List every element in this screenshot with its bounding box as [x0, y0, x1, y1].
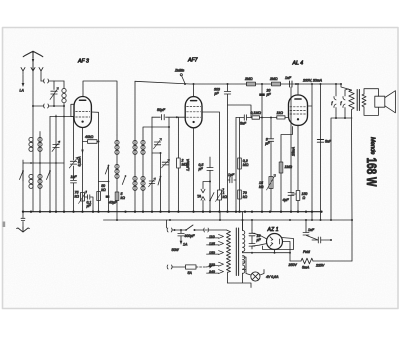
- svg-text:4µF: 4µF: [283, 198, 290, 202]
- svg-text:168 W: 168 W: [364, 158, 379, 187]
- ground bus nodes: [22, 211, 323, 213]
- wire column x320: [320, 84, 322, 220]
- power transformer HT secondary: [242, 220, 244, 231]
- wire dashed mains: [196, 266, 206, 268]
- svg-text:225V: 225V: [315, 264, 325, 268]
- svg-text:5mA: 5mA: [302, 266, 310, 270]
- resistor 5k: [115, 192, 119, 201]
- coil IF1a2: [115, 164, 119, 168]
- tube V1 internals: [80, 99, 86, 101]
- potentiometer det: [218, 190, 222, 200]
- svg-text:MΩ: MΩ: [182, 163, 188, 167]
- svg-text:1µF: 1µF: [228, 173, 235, 177]
- svg-text:50W: 50W: [172, 248, 180, 252]
- capacitor 5nF fb: [317, 140, 323, 143]
- AZ1 internals: [270, 237, 280, 246]
- capacitor 40uF: [106, 195, 110, 198]
- coil IF2b: [141, 140, 145, 144]
- tap leads: [207, 238, 219, 273]
- resistor 70k: [238, 190, 242, 199]
- svg-text:AZ 1: AZ 1: [267, 227, 279, 233]
- wire cross y163: [23, 162, 64, 164]
- wire ant-LC top: [41, 80, 64, 82]
- power transformer taps: [219, 234, 224, 238]
- svg-text:25mA: 25mA: [292, 146, 296, 157]
- rectifier AZ1: [267, 234, 283, 250]
- wire column x152: [151, 117, 153, 212]
- switch ZuBln: [182, 76, 186, 84]
- svg-text:pF: pF: [214, 92, 220, 96]
- coil IF2d: [141, 176, 145, 180]
- resistor 2M a: [247, 82, 256, 86]
- node rail c: [227, 83, 229, 85]
- trimmer mid x165: [162, 162, 168, 165]
- svg-text:5nF: 5nF: [240, 122, 247, 126]
- jack TA: [201, 182, 210, 212]
- power transformer 4V winding: [243, 256, 245, 264]
- wire bus2 to mains plug: [166, 220, 168, 228]
- wire HT bottom y252: [243, 252, 291, 254]
- wire 1nF to cathode cap: [290, 87, 292, 193]
- node rail a: [261, 83, 263, 85]
- output transformer primary: [340, 83, 342, 85]
- svg-text:6,2mA: 6,2mA: [78, 156, 82, 167]
- coil L1a: [29, 137, 33, 141]
- bus 2: [104, 219, 353, 221]
- tube V2 AF7: [185, 97, 202, 128]
- fuse line: [167, 265, 185, 269]
- wire V1 top cap: [83, 81, 117, 135]
- wire screen x312: [308, 84, 313, 220]
- svg-text:230V, 20mA: 230V, 20mA: [302, 79, 323, 83]
- network 1nF low: [303, 220, 318, 240]
- capacitor 1nF rail: [290, 81, 293, 87]
- svg-text:40µF: 40µF: [109, 201, 118, 205]
- wire y117: [236, 117, 289, 119]
- capacitor 3uF: [268, 118, 273, 142]
- output transformer core: [357, 90, 359, 111]
- potentiometer cathode 75k: [81, 193, 85, 202]
- wire bus link x220: [219, 212, 221, 220]
- wire column x73: [73, 117, 75, 212]
- output transformer secondary: [362, 94, 366, 107]
- wire y117 grid V2: [152, 116, 185, 118]
- switch mains: [186, 225, 193, 230]
- wire column x239.5: [239, 118, 241, 212]
- wire cross y116: [50, 116, 74, 118]
- resistor 2M b: [272, 82, 281, 86]
- svg-text:2MΩ: 2MΩ: [269, 77, 278, 81]
- wire column x236: [235, 118, 237, 212]
- wire V1 to R 40k: [83, 141, 88, 143]
- capacitor HT a: [249, 230, 255, 238]
- tube V3 AL4: [289, 95, 308, 125]
- wire column x117 low: [116, 135, 118, 220]
- svg-text:kΩ: kΩ: [101, 188, 106, 192]
- switch x124: [122, 176, 125, 185]
- left margin mark: [3, 222, 6, 228]
- wire column x23: [22, 160, 24, 212]
- mains switch line: [167, 228, 186, 232]
- resistor 2M vert: [177, 158, 181, 168]
- field coil: [290, 260, 301, 262]
- capacitor HT b: [249, 238, 255, 249]
- wire column x160: [152, 153, 161, 212]
- wire speaker loop: [364, 89, 379, 116]
- svg-text:LA: LA: [20, 89, 25, 93]
- connector gap bottom: [44, 104, 49, 108]
- capacitor 300pF: [224, 84, 230, 105]
- connector gap top: [44, 79, 49, 83]
- svg-text:220: 220: [208, 263, 215, 267]
- socket A middle: [31, 63, 35, 71]
- power transformer primary: [227, 230, 231, 283]
- wire column x48: [49, 117, 51, 212]
- socket LA left: [21, 68, 25, 75]
- tube V2 internals: [191, 100, 197, 102]
- resistor 50k: [97, 192, 101, 201]
- svg-text:1nF: 1nF: [308, 228, 315, 232]
- coil IF2a: [133, 140, 137, 144]
- coil IF1a: [115, 140, 119, 144]
- svg-text:4V 0,6A: 4V 0,6A: [266, 275, 279, 279]
- coil ant: [63, 81, 65, 88]
- ground symbol: [21, 212, 25, 229]
- loudspeaker: [375, 96, 385, 107]
- ground bus: [23, 211, 322, 213]
- wire column x64: [63, 106, 65, 212]
- coil IF2c: [133, 176, 137, 180]
- LA arrow: [22, 75, 24, 85]
- svg-text:kΩ: kΩ: [121, 196, 126, 200]
- wire column x169: [168, 117, 170, 211]
- wire V2 anode: [202, 112, 220, 190]
- switch band mid: [47, 171, 51, 180]
- wire jack bottom: [336, 117, 352, 119]
- tube V1 AF3: [74, 97, 91, 128]
- switch x108: [105, 166, 108, 175]
- coil L2a: [29, 174, 33, 178]
- node rail-V2: [193, 83, 195, 85]
- svg-text:40kΩ: 40kΩ: [85, 135, 94, 139]
- svg-text:2MΩ: 2MΩ: [244, 77, 253, 81]
- svg-text:kΩ: kΩ: [223, 195, 228, 199]
- svg-text:AL 4: AL 4: [292, 61, 304, 67]
- wire column x108: [99, 165, 109, 212]
- svg-text:ƒ: ƒ: [340, 101, 342, 105]
- capacitor 20uF: [261, 84, 263, 212]
- wire x331: [331, 118, 336, 220]
- power transformer heater winding: [243, 265, 245, 273]
- resistor 150: [296, 191, 300, 201]
- wire antenna lead: [32, 57, 34, 212]
- svg-text:150: 150: [209, 251, 215, 255]
- svg-text:1A: 1A: [183, 243, 188, 247]
- power transformer core: [236, 228, 238, 276]
- svg-text:kΩ: kΩ: [243, 195, 248, 199]
- capacitor 0.5uF: [207, 157, 213, 212]
- svg-text:ƒ: ƒ: [331, 101, 333, 105]
- svg-text:ZuBln: ZuBln: [174, 69, 184, 73]
- svg-text:AF 3: AF 3: [77, 59, 89, 65]
- resistor 0.3M: [238, 158, 242, 169]
- wire column x143: [143, 127, 169, 212]
- svg-text:1kΩ: 1kΩ: [277, 111, 284, 115]
- trimmer capacitor ant: [51, 81, 57, 106]
- svg-text:250V: 250V: [288, 263, 298, 267]
- svg-text:kΩ: kΩ: [259, 185, 264, 189]
- svg-text:0,1MΩ: 0,1MΩ: [251, 111, 262, 115]
- wire bus link x242: [242, 212, 244, 230]
- wire ant-LC bottom: [33, 105, 64, 107]
- trimmer x73: [70, 161, 76, 164]
- capacitor 50pF: [162, 115, 165, 120]
- wire column x40: [39, 132, 41, 212]
- bus2 nodes: [116, 219, 353, 221]
- svg-text:Mende: Mende: [369, 137, 375, 155]
- svg-text:50pF: 50pF: [157, 108, 166, 112]
- svg-text:Ω: Ω: [303, 196, 306, 200]
- rail 230V: [135, 81, 341, 84]
- wire V2 topcap to rail: [193, 84, 195, 96]
- wire x352 down: [351, 220, 353, 261]
- wire AZ1 output: [283, 242, 291, 262]
- tube V3 internals: [295, 98, 301, 100]
- svg-text:110: 110: [209, 235, 215, 239]
- svg-text:MΩ: MΩ: [243, 163, 249, 167]
- wire y105: [228, 105, 252, 118]
- svg-text:TA: TA: [197, 195, 202, 199]
- svg-text:240: 240: [208, 270, 215, 274]
- socket A right: [39, 68, 43, 82]
- resistor 0.1M: [252, 116, 260, 119]
- wire V2 cathode: [193, 128, 195, 212]
- capacitor fb low: [312, 237, 331, 243]
- pilot lamp: [243, 257, 265, 275]
- node ant junction: [32, 105, 34, 107]
- wire caps to AZ1: [252, 233, 267, 246]
- trimmer x56: [53, 145, 59, 148]
- capacitor grid cluster: [71, 180, 77, 183]
- wire V1 cathode: [82, 128, 84, 212]
- capacitor cathode bypass: [288, 193, 296, 212]
- svg-text:AF7: AF7: [187, 58, 199, 64]
- wire column x135: [134, 81, 136, 211]
- svg-text:Feld: Feld: [303, 250, 311, 254]
- svg-text:1nF: 1nF: [285, 76, 292, 80]
- resistor 1M grid: [281, 127, 293, 212]
- svg-text:5A: 5A: [188, 271, 193, 275]
- svg-text:1nF: 1nF: [71, 175, 78, 179]
- wire column x56: [55, 115, 57, 212]
- coil L2b: [38, 174, 42, 178]
- potentiometer 15k: [270, 141, 272, 211]
- trimmer IF low: [149, 181, 155, 184]
- wire V3 topcap: [297, 84, 299, 95]
- antenna: [23, 51, 43, 58]
- wire column x227 low: [227, 105, 229, 212]
- wire bus2 to HT caps: [251, 220, 253, 230]
- switch band left: [20, 171, 24, 181]
- capacitor 5nF det: [244, 115, 246, 120]
- resistor 1k grid: [277, 116, 285, 119]
- capacitor 1uF: [228, 177, 237, 183]
- speaker jack 1: [335, 83, 337, 85]
- node rail b: [295, 83, 297, 85]
- resistor 40k: [88, 140, 98, 144]
- switch det: [210, 193, 214, 201]
- svg-text:300µF: 300µF: [185, 234, 196, 238]
- capacitor 300uF: [178, 230, 184, 242]
- speaker jack 2: [343, 90, 345, 118]
- coil L1b: [38, 137, 42, 141]
- switch x160: [158, 177, 161, 186]
- wire V3 cathode: [297, 125, 299, 191]
- svg-text:kΩ: kΩ: [75, 195, 80, 199]
- capacitor cathode 0.1uF: [85, 195, 94, 212]
- svg-text:125: 125: [209, 242, 215, 246]
- trimmer IF top: [154, 142, 160, 145]
- fuse 5A: [186, 265, 197, 269]
